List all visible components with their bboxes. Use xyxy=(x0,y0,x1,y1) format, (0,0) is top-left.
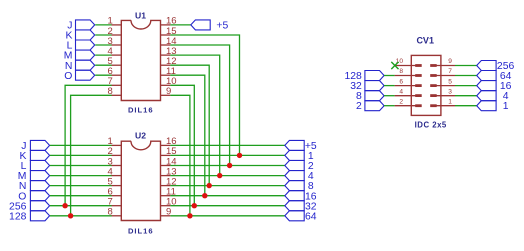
wire net J: flag to U1 pin 1 xyxy=(95,24,111,26)
svg-text:1: 1 xyxy=(503,101,509,112)
U2 pin 10 (right stub + number) xyxy=(161,197,177,208)
wire net 4: U2 pin 13 to flag xyxy=(170,175,284,177)
junction dot net 16 (U1 pin11 to U2 pin11) xyxy=(202,193,207,198)
U1 pin 2 (left stub + number) xyxy=(108,26,122,37)
svg-text:64: 64 xyxy=(305,211,317,222)
svg-text:U1: U1 xyxy=(135,10,146,20)
wire net 128: flag to U2 pin 8 xyxy=(50,215,112,217)
U1 pin 8 (left stub + number) xyxy=(108,86,122,97)
U2 pin 11 (right stub + number) xyxy=(161,187,176,198)
net flag 16 (U2 pin 11) xyxy=(285,191,317,203)
net flag N (U1 pin 5) xyxy=(65,60,95,72)
net flag 1 (CV1 pin 1) xyxy=(477,101,509,112)
U1 pin 15 (right stub + number) xyxy=(161,26,177,37)
junction dot net 64 (U1 pin9 to U2 pin9) xyxy=(187,213,192,218)
svg-text:2: 2 xyxy=(399,98,403,105)
wire net L: flag to U1 pin 3 xyxy=(95,44,111,46)
wire net 256: U1 pin7 left/down to U2 pin7 xyxy=(65,85,112,205)
net flag M (U1 pin 4) xyxy=(64,50,95,62)
svg-text:4: 4 xyxy=(399,88,403,95)
U1 pin 11 (right stub + number) xyxy=(161,66,176,77)
net flag 32 (U2 pin 10) xyxy=(285,201,317,213)
svg-text:DIL16: DIL16 xyxy=(128,226,154,235)
wire net 4: CV1 pin 3 to flag xyxy=(455,95,477,97)
U1 pin 6 (left stub + number) xyxy=(108,66,122,77)
net flag K (U2 pin 2) xyxy=(19,150,49,162)
svg-text:DIL16: DIL16 xyxy=(128,106,154,115)
svg-text:6: 6 xyxy=(399,78,403,85)
U1 pin 14 (right stub + number) xyxy=(161,36,177,47)
U2 pin 15 (right stub + number) xyxy=(161,146,177,157)
wire net 2: U2 pin 14 to flag xyxy=(170,165,284,167)
net flag 4 (U2 pin 13) xyxy=(285,171,314,183)
svg-text:U2: U2 xyxy=(135,130,146,140)
wire net 32: U2 pin 10 to flag xyxy=(170,205,284,207)
net flag 64 (U2 pin 9) xyxy=(285,211,317,223)
wire net 2: flag to CV1 pin 2 xyxy=(384,105,395,107)
U2 pin 13 (right stub + number) xyxy=(161,166,177,177)
U2 pin 2 (left stub + number) xyxy=(108,146,122,157)
U2 pin 6 (left stub + number) xyxy=(108,187,122,198)
wire net O: flag to U1 pin 6 xyxy=(95,74,111,76)
junction dot net 32 (U1 pin10 to U2 pin10) xyxy=(192,203,197,208)
CV1 pin 3 (right stub + pad + number) xyxy=(430,88,455,97)
CV1 pin 8 (left stub + pad + number) xyxy=(395,68,422,77)
svg-text:3: 3 xyxy=(448,88,452,95)
net flag N (U2 pin 5) xyxy=(19,181,50,193)
junction dot net 1 (U1 pin15 to U2 pin15) xyxy=(237,153,242,158)
wire net 1: U2 pin 15 to flag xyxy=(170,154,284,156)
CV1 pin 10 (left stub + pad + number) xyxy=(395,58,422,67)
CV1 pin 4 (left stub + pad + number) xyxy=(395,88,422,97)
IC U2 body (DIL16) xyxy=(121,141,160,220)
net flag 256 (CV1 pin 9) xyxy=(477,61,515,72)
wire net 16: CV1 pin 5 to flag xyxy=(455,85,477,87)
wire net 32: flag to CV1 pin 6 xyxy=(384,85,395,87)
U2 pin 12 (right stub + number) xyxy=(161,176,177,187)
wire net N: flag to U2 pin 5 xyxy=(50,185,112,187)
net flag O (U2 pin 6) xyxy=(18,191,49,203)
wire net 1: U1 pin15 right/down to U2 pin15 xyxy=(170,35,239,155)
IC U1 body (DIL16) xyxy=(121,20,160,100)
net flag +5 (U2 pin 16) xyxy=(285,140,317,152)
U1 pin 1 (left stub + number) xyxy=(108,16,122,27)
power flag +5 (U1 pin16) xyxy=(191,20,229,32)
net flag 128 (U2 pin 8) xyxy=(9,211,50,223)
wire net 1: CV1 pin 1 to flag xyxy=(455,105,477,107)
wire net 64: CV1 pin 7 to flag xyxy=(455,75,477,77)
wire net O: flag to U2 pin 6 xyxy=(50,195,112,197)
wire net K: flag to U2 pin 2 xyxy=(50,154,112,156)
junction dot net 8 (U1 pin12 to U2 pin12) xyxy=(207,183,212,188)
wire net 32: U1 pin10 right/down to U2 pin10 xyxy=(170,85,194,205)
svg-text:5: 5 xyxy=(448,78,452,85)
net flag J (U2 pin 1) xyxy=(21,140,49,152)
CV1 pin 1 (right stub + pad + number) xyxy=(430,98,455,107)
wire net M: flag to U1 pin 4 xyxy=(95,54,111,56)
wire net 8: flag to CV1 pin 4 xyxy=(384,95,395,97)
CV1 pin 2 (left stub + pad + number) xyxy=(395,98,422,107)
wire net K: flag to U1 pin 2 xyxy=(95,34,111,36)
svg-text:7: 7 xyxy=(448,68,452,75)
net flag 1 (U2 pin 15) xyxy=(285,150,314,162)
U2 pin 5 (left stub + number) xyxy=(108,176,122,187)
U1 pin 9 (right stub + number) xyxy=(161,86,172,97)
wire net 2: U1 pin14 right/down to U2 pin14 xyxy=(170,45,229,166)
net flag M (U2 pin 4) xyxy=(18,171,50,183)
U2 pin 3 (left stub + number) xyxy=(108,156,122,167)
svg-text:IDC 2x5: IDC 2x5 xyxy=(415,120,447,129)
net flag 256 (U2 pin 7) xyxy=(9,201,50,213)
wire net 256: flag to U2 pin 7 xyxy=(50,205,112,207)
net flag O (U1 pin 6) xyxy=(64,70,94,82)
wire net 4: U1 pin13 right/down to U2 pin13 xyxy=(170,55,219,176)
wire net J: flag to U2 pin 1 xyxy=(50,144,112,146)
net flag 128 (CV1 pin 8) xyxy=(344,71,384,83)
U2 pin 4 (left stub + number) xyxy=(108,166,122,177)
CV1 pin 9 (right stub + pad + number) xyxy=(430,58,455,67)
U2 pin 9 (right stub + number) xyxy=(161,207,172,218)
net flag 2 (CV1 pin 2) xyxy=(356,101,384,112)
wire net 8: U1 pin12 right/down to U2 pin12 xyxy=(170,65,209,185)
U1 pin 13 (right stub + number) xyxy=(161,46,177,57)
U1 pin 7 (left stub + number) xyxy=(108,76,122,87)
CV1 pin 7 (right stub + pad + number) xyxy=(430,68,455,77)
junction dot net 256 (U1 pin7 to U2 pin7) xyxy=(62,203,67,208)
net flag 2 (U2 pin 14) xyxy=(285,161,314,173)
wire net +5: U1 pin16 to flag xyxy=(170,24,190,26)
net flag 8 (CV1 pin 4) xyxy=(356,91,384,102)
U2 pin 1 (left stub + number) xyxy=(108,136,122,147)
wire net 256: CV1 pin 9 to flag xyxy=(455,65,477,67)
net flag 4 (CV1 pin 3) xyxy=(477,91,509,102)
wire net N: flag to U1 pin 5 xyxy=(95,64,111,66)
U1 pin 16 (right stub + number) xyxy=(161,16,177,27)
wire net M: flag to U2 pin 4 xyxy=(50,175,112,177)
CV1 pin 5 (right stub + pad + number) xyxy=(430,78,455,87)
U1 pin 5 (left stub + number) xyxy=(108,56,122,67)
U1 pin 12 (right stub + number) xyxy=(161,56,177,67)
svg-text:9: 9 xyxy=(448,58,452,65)
net flag 16 (CV1 pin 5) xyxy=(477,81,512,92)
junction dot net 2 (U1 pin14 to U2 pin14) xyxy=(227,163,232,168)
net flag K (U1 pin 2) xyxy=(65,30,94,42)
svg-text:8: 8 xyxy=(399,68,403,75)
U1 pin 4 (left stub + number) xyxy=(108,46,122,57)
net flag 64 (CV1 pin 7) xyxy=(477,71,512,83)
svg-text:1: 1 xyxy=(448,98,452,105)
wire net 64: U2 pin 9 to flag xyxy=(170,215,284,217)
svg-text:2: 2 xyxy=(356,101,362,112)
wire net 8: U2 pin 12 to flag xyxy=(170,185,284,187)
no-connect X on CV1 pin 10 xyxy=(391,62,398,69)
wire net 16: U2 pin 11 to flag xyxy=(170,195,284,197)
wire net L: flag to U2 pin 3 xyxy=(50,165,112,167)
U1 pin 10 (right stub + number) xyxy=(161,76,177,87)
net flag 8 (U2 pin 12) xyxy=(285,181,314,193)
junction dot net 128 (U1 pin8 to U2 pin8) xyxy=(68,213,73,218)
U2 pin 14 (right stub + number) xyxy=(161,156,177,167)
svg-text:O: O xyxy=(64,71,72,82)
svg-text:+5: +5 xyxy=(216,21,228,32)
wire net 64: U1 pin9 right/down to U2 pin9 xyxy=(170,95,190,216)
CV1 pin 6 (left stub + pad + number) xyxy=(395,78,422,87)
U2 pin 8 (left stub + number) xyxy=(108,207,122,218)
U2 pin 7 (left stub + number) xyxy=(108,197,122,208)
net flag L (U1 pin 3) xyxy=(67,40,95,52)
wire net +5: U2 pin 16 to flag xyxy=(170,144,284,146)
svg-text:CV1: CV1 xyxy=(416,35,434,45)
net flag J (U1 pin 1) xyxy=(67,20,95,32)
U1 pin 3 (left stub + number) xyxy=(108,36,122,47)
net flag L (U2 pin 3) xyxy=(21,161,50,173)
junction dot net 4 (U1 pin13 to U2 pin13) xyxy=(217,173,222,178)
U2 pin 16 (right stub + number) xyxy=(161,136,177,147)
wire net 128: U1 pin8 left/down to U2 pin8 xyxy=(71,95,112,216)
connector CV1 body (IDC 2x5) xyxy=(411,55,441,115)
svg-text:128: 128 xyxy=(9,211,27,222)
wire net 128: flag to CV1 pin 8 xyxy=(384,75,395,77)
wire net 16: U1 pin11 right/down to U2 pin11 xyxy=(170,75,204,196)
net flag 32 (CV1 pin 6) xyxy=(350,81,384,92)
